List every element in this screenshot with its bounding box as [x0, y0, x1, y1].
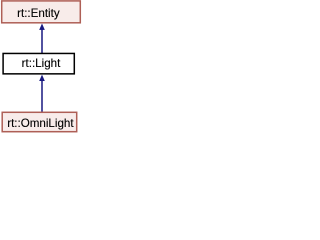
node rt::Light box: [3, 53, 74, 73]
wire arrow OmniLight to Light: [41, 80, 43, 112]
node rt::Entity box: [2, 1, 81, 23]
background: [0, 0, 82, 136]
arrowhead Light to Entity: [40, 24, 45, 29]
svg-text:rt::Entity: rt::Entity: [17, 7, 60, 20]
node rt::OmniLight box: [2, 112, 77, 131]
svg-text:rt::Light: rt::Light: [22, 57, 61, 70]
wire arrow Light to Entity: [41, 29, 43, 53]
svg-text:rt::OmniLight: rt::OmniLight: [7, 117, 74, 130]
arrowhead OmniLight to Light: [40, 75, 45, 80]
